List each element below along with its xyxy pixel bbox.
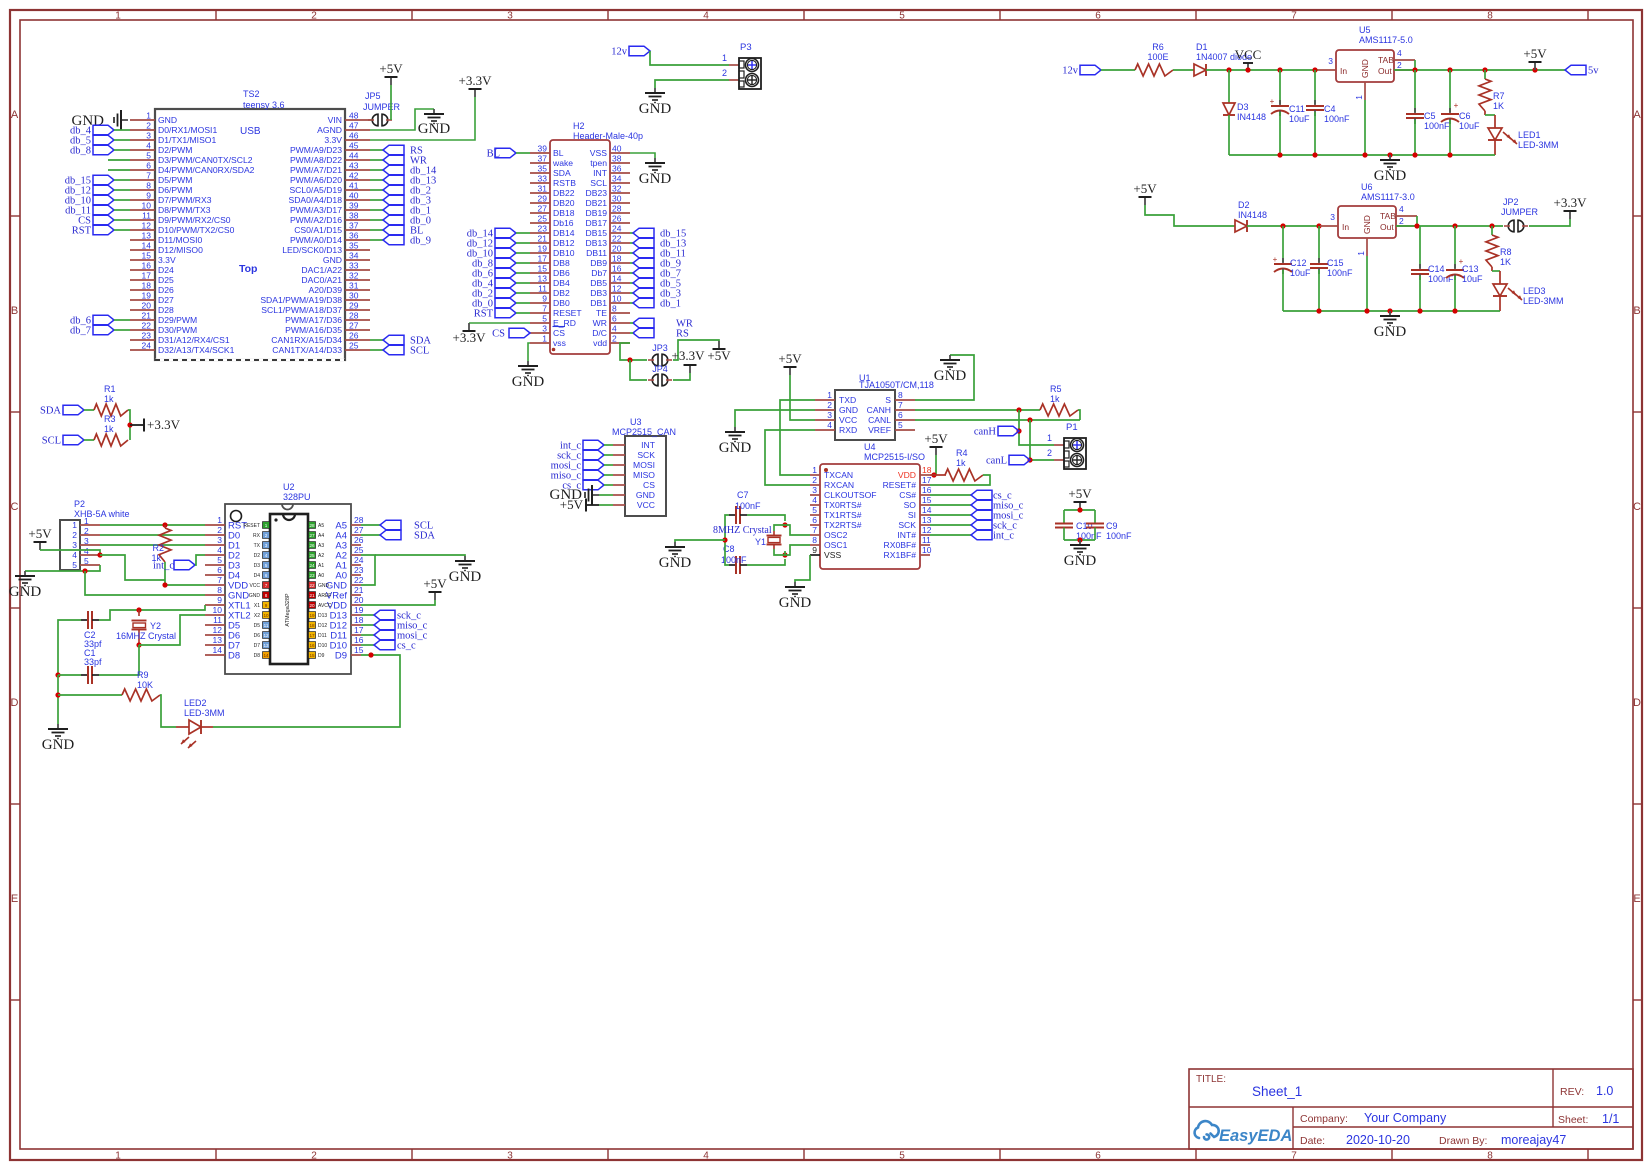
svg-text:ATMega328P: ATMega328P xyxy=(285,593,291,627)
junction dot C13 bottom xyxy=(1452,308,1457,313)
svg-text:R8: R8 xyxy=(1500,247,1512,257)
IC TS2 teensy 3.6 xyxy=(130,89,370,360)
svg-text:11: 11 xyxy=(264,623,269,628)
ground at H2 pin1 xyxy=(512,361,545,390)
net flag db_8 xyxy=(472,258,530,269)
svg-text:A5: A5 xyxy=(318,523,324,529)
svg-text:RS: RS xyxy=(676,329,689,340)
net flag db_2 xyxy=(370,185,431,196)
wire CANH rail xyxy=(915,409,1040,411)
svg-text:D24: D24 xyxy=(158,265,174,275)
junction dot U5 gnd xyxy=(1362,152,1367,157)
svg-text:14: 14 xyxy=(263,653,269,658)
net flag db_14 xyxy=(467,228,530,239)
svg-text:21: 21 xyxy=(354,585,364,595)
svg-text:R9: R9 xyxy=(137,670,149,680)
svg-text:1: 1 xyxy=(217,515,222,525)
svg-text:JUMPER: JUMPER xyxy=(363,102,401,112)
svg-text:GND: GND xyxy=(1362,215,1372,234)
svg-text:12: 12 xyxy=(213,625,223,635)
svg-text:100nF: 100nF xyxy=(735,501,761,511)
svg-text:1/1: 1/1 xyxy=(1602,1112,1619,1126)
svg-text:PWM/A6/D20: PWM/A6/D20 xyxy=(290,175,342,185)
svg-text:24: 24 xyxy=(612,224,622,234)
wire P2 pin1 to U2 RST xyxy=(100,524,205,526)
svg-text:vdd: vdd xyxy=(593,338,607,348)
svg-text:P3: P3 xyxy=(740,42,752,53)
junction dot Y1 bottom xyxy=(782,552,787,557)
wire H2 pin40 to GND xyxy=(630,153,655,158)
svg-text:13: 13 xyxy=(922,515,932,525)
svg-text:D10/PWM/TX2/CS0: D10/PWM/TX2/CS0 xyxy=(158,225,235,235)
svg-text:IN4148: IN4148 xyxy=(1237,112,1266,122)
svg-text:GND: GND xyxy=(1360,59,1370,78)
svg-text:19: 19 xyxy=(142,291,152,301)
wire canL drop to P1 pin2 xyxy=(1030,420,1054,460)
svg-text:36: 36 xyxy=(612,164,622,174)
wire P3 pin2 to GND xyxy=(655,80,729,88)
svg-text:In: In xyxy=(1340,66,1347,76)
svg-text:PWM/A16/D35: PWM/A16/D35 xyxy=(285,325,342,335)
svg-text:+5V: +5V xyxy=(28,526,52,541)
svg-text:4: 4 xyxy=(146,141,151,151)
svg-text:cs_c: cs_c xyxy=(397,641,416,652)
net flag RS xyxy=(630,328,689,339)
power +5V at P2 xyxy=(28,526,52,550)
svg-text:TITLE:: TITLE: xyxy=(1196,1074,1226,1085)
svg-text:34: 34 xyxy=(349,251,359,261)
svg-text:DB11: DB11 xyxy=(586,248,607,258)
svg-text:CAN1RX/A15/D34: CAN1RX/A15/D34 xyxy=(271,335,342,345)
svg-text:19: 19 xyxy=(309,613,315,618)
svg-text:23: 23 xyxy=(142,331,152,341)
svg-text:22: 22 xyxy=(612,234,622,244)
svg-text:26: 26 xyxy=(612,214,622,224)
power +5V at U1 xyxy=(778,351,802,375)
svg-text:teensy 3.6: teensy 3.6 xyxy=(243,100,285,110)
net flag db_12 xyxy=(467,238,530,249)
svg-text:U2: U2 xyxy=(283,482,295,492)
svg-text:36: 36 xyxy=(349,231,359,241)
svg-text:TAB: TAB xyxy=(1380,211,1396,221)
svg-text:S: S xyxy=(885,395,891,405)
ground at U4 VSS xyxy=(779,582,812,611)
svg-text:U4: U4 xyxy=(864,442,876,452)
svg-text:+3.3V: +3.3V xyxy=(1554,195,1588,210)
svg-text:27: 27 xyxy=(538,204,548,214)
wire C1 left to gnd node xyxy=(58,674,81,676)
wire C2 left down xyxy=(58,620,81,675)
svg-text:D12/MISO0: D12/MISO0 xyxy=(158,245,203,255)
wire D2 to U6 In xyxy=(1247,225,1320,227)
ground at TS2 pin 1 xyxy=(72,110,129,130)
crystal Y2 xyxy=(116,610,176,645)
svg-text:CS: CS xyxy=(492,329,505,340)
svg-text:P2: P2 xyxy=(74,499,85,509)
svg-text:db_1: db_1 xyxy=(660,299,681,310)
svg-text:+: + xyxy=(1459,257,1464,266)
svg-text:16MHZ Crystal: 16MHZ Crystal xyxy=(116,631,176,641)
svg-text:C9: C9 xyxy=(1106,521,1118,531)
net flag miso_c at U2 xyxy=(361,620,428,631)
net flag cs_c at U3 xyxy=(562,480,613,491)
power +5V at JP3 xyxy=(707,341,731,363)
svg-text:1.0: 1.0 xyxy=(1596,1084,1613,1098)
svg-text:2: 2 xyxy=(812,475,817,485)
junction dot U6 out xyxy=(1414,223,1419,228)
wire R2 bottom to VDD xyxy=(165,562,205,585)
net flag CS xyxy=(492,328,530,339)
net flag mosi_c at U3 xyxy=(551,460,613,471)
svg-text:Drawn By:: Drawn By: xyxy=(1439,1135,1487,1147)
junction dot C15 bottom xyxy=(1316,308,1321,313)
svg-text:1: 1 xyxy=(1354,95,1364,100)
svg-text:39: 39 xyxy=(349,201,359,211)
resistor R7 xyxy=(1479,70,1505,111)
power +5V at JP5 xyxy=(379,61,403,85)
net flag SCL xyxy=(42,435,84,446)
wire P2 pin3 to U2 D1 xyxy=(100,544,205,546)
svg-text:D30/PWM: D30/PWM xyxy=(158,325,197,335)
net flag int_c xyxy=(930,530,1014,541)
svg-text:SI: SI xyxy=(908,510,916,520)
svg-text:DB13: DB13 xyxy=(586,238,608,248)
net flag miso_c at U3 xyxy=(551,470,613,481)
svg-text:D26: D26 xyxy=(158,285,174,295)
svg-text:RST: RST xyxy=(72,226,92,237)
svg-text:A20/D39: A20/D39 xyxy=(309,285,343,295)
junction dot C11 top xyxy=(1277,67,1282,72)
junction dot R2 bottom xyxy=(162,582,167,587)
svg-text:MCP2515-I/SO: MCP2515-I/SO xyxy=(864,452,925,462)
svg-text:B: B xyxy=(11,305,18,317)
svg-text:18: 18 xyxy=(142,281,152,291)
svg-text:4: 4 xyxy=(1399,204,1404,214)
svg-text:100nF: 100nF xyxy=(1424,121,1450,131)
svg-text:VSS: VSS xyxy=(824,550,841,560)
svg-text:AMS1117-3.0: AMS1117-3.0 xyxy=(1361,192,1415,202)
svg-text:8: 8 xyxy=(146,181,151,191)
svg-text:DB8: DB8 xyxy=(553,258,570,268)
ground at U1 pin8 xyxy=(934,355,967,384)
svg-text:1: 1 xyxy=(146,111,151,121)
svg-text:VSS: VSS xyxy=(590,148,607,158)
svg-text:6: 6 xyxy=(146,161,151,171)
svg-text:2: 2 xyxy=(1397,60,1402,70)
junction dot R9 left xyxy=(55,692,60,697)
svg-text:D7: D7 xyxy=(254,643,261,649)
svg-text:SDA1/PWM/A19/D38: SDA1/PWM/A19/D38 xyxy=(260,295,342,305)
svg-text:1k: 1k xyxy=(956,458,966,468)
net flag db_1 xyxy=(630,298,681,309)
svg-text:PWM/A17/D36: PWM/A17/D36 xyxy=(285,315,342,325)
wire JP2 to +3.3V xyxy=(1529,219,1570,226)
net flag canH xyxy=(974,426,1019,437)
junction dot gnd2 sym xyxy=(1387,308,1392,313)
svg-text:DB20: DB20 xyxy=(553,198,575,208)
svg-text:DB5: DB5 xyxy=(590,278,607,288)
svg-text:GND: GND xyxy=(42,737,75,753)
svg-text:RX0BF#: RX0BF# xyxy=(884,540,917,550)
svg-text:4: 4 xyxy=(84,546,89,556)
svg-text:GND: GND xyxy=(449,569,482,585)
svg-text:4: 4 xyxy=(827,420,832,430)
net flag sck_c at U2 xyxy=(361,610,421,621)
net flag db_10 xyxy=(65,195,130,206)
svg-text:17: 17 xyxy=(538,254,548,264)
svg-text:+5V: +5V xyxy=(1133,181,1157,196)
svg-text:18: 18 xyxy=(354,615,364,625)
svg-text:Your Company: Your Company xyxy=(1364,1111,1447,1125)
svg-text:A3: A3 xyxy=(318,543,324,549)
wire U5 TAB to out rail xyxy=(1414,60,1416,70)
wire P2 pin2 to U2 D0 xyxy=(100,534,205,536)
svg-text:12v: 12v xyxy=(611,47,628,58)
svg-text:D8/PWM/TX3: D8/PWM/TX3 xyxy=(158,205,211,215)
svg-text:RX1BF#: RX1BF# xyxy=(884,550,917,560)
svg-text:E: E xyxy=(11,893,18,905)
svg-text:7: 7 xyxy=(812,525,817,535)
svg-text:1: 1 xyxy=(812,465,817,475)
svg-text:CAN1TX/A14/D33: CAN1TX/A14/D33 xyxy=(272,345,342,355)
IC U4 MCP2515-I/SO xyxy=(810,442,932,569)
net flag db_5 xyxy=(70,135,130,146)
svg-text:2: 2 xyxy=(1399,216,1404,226)
svg-text:SDA0/A4/D18: SDA0/A4/D18 xyxy=(288,195,342,205)
svg-text:28: 28 xyxy=(354,515,364,525)
svg-text:6: 6 xyxy=(265,573,268,578)
svg-text:+3.3V: +3.3V xyxy=(453,330,487,345)
svg-text:D3: D3 xyxy=(254,563,261,569)
svg-text:38: 38 xyxy=(612,154,622,164)
svg-text:7: 7 xyxy=(146,171,151,181)
LED LED1 xyxy=(1485,111,1559,155)
svg-text:TS2: TS2 xyxy=(243,89,260,99)
svg-text:db_7: db_7 xyxy=(70,326,91,337)
svg-text:21: 21 xyxy=(142,311,152,321)
svg-text:40: 40 xyxy=(612,144,622,154)
svg-text:BL: BL xyxy=(553,148,564,158)
svg-text:A4: A4 xyxy=(318,533,324,539)
svg-text:R1: R1 xyxy=(104,384,116,394)
wire +5V to P2 pin4 xyxy=(40,550,100,555)
capacitor C2 xyxy=(81,611,102,649)
svg-text:34: 34 xyxy=(612,174,622,184)
svg-text:14: 14 xyxy=(612,274,622,284)
svg-text:moreajay47: moreajay47 xyxy=(1501,1133,1566,1147)
svg-text:VIN: VIN xyxy=(328,115,342,125)
svg-text:TE: TE xyxy=(596,308,607,318)
junction dot C4 bottom xyxy=(1312,152,1317,157)
junction dot canH xyxy=(1016,407,1021,412)
wire JP5 to +5V xyxy=(390,85,392,120)
wire GND bus lower regulator xyxy=(1283,310,1500,312)
net flag miso_c xyxy=(930,500,1024,511)
svg-text:OSC1: OSC1 xyxy=(824,540,848,550)
svg-text:D/C: D/C xyxy=(592,328,607,338)
svg-text:INT: INT xyxy=(593,168,608,178)
svg-text:D1/TX1/MISO1: D1/TX1/MISO1 xyxy=(158,135,216,145)
power +5V output xyxy=(1523,46,1547,70)
svg-text:D6/PWM: D6/PWM xyxy=(158,185,192,195)
svg-text:10uF: 10uF xyxy=(1290,268,1311,278)
svg-text:C14: C14 xyxy=(1428,264,1445,274)
svg-text:D9: D9 xyxy=(335,651,347,662)
power +5V at U2 xyxy=(423,576,447,600)
svg-text:SCL0/A5/D19: SCL0/A5/D19 xyxy=(289,185,342,195)
net flag db_3 xyxy=(370,195,431,206)
svg-text:CS: CS xyxy=(643,480,655,490)
svg-text:42: 42 xyxy=(349,171,359,181)
wire U6 out rail xyxy=(1396,225,1503,227)
svg-text:CANL: CANL xyxy=(868,415,891,425)
junction dot R2 top xyxy=(162,522,167,527)
pin stub P3-1 xyxy=(722,53,739,65)
net flag sck_c at U3 xyxy=(557,450,613,461)
regulator U5 AMS1117-5.0 xyxy=(1318,25,1415,100)
capacitor C8 xyxy=(721,544,747,574)
svg-text:15: 15 xyxy=(309,653,315,658)
svg-text:15: 15 xyxy=(538,264,548,274)
svg-text:13: 13 xyxy=(213,635,223,645)
wire Y1 top to OSC2 xyxy=(785,525,810,535)
junction dot VCC xyxy=(1245,67,1250,72)
svg-text:MOSI: MOSI xyxy=(633,460,655,470)
svg-text:33: 33 xyxy=(538,174,548,184)
svg-text:16: 16 xyxy=(354,635,364,645)
capacitor C7 xyxy=(729,490,761,524)
net flag 12v xyxy=(611,46,650,57)
net flag db_3 xyxy=(630,288,681,299)
ground at P2 xyxy=(9,571,42,600)
junction dot xtal gnd xyxy=(722,537,727,542)
net flag mosi_c xyxy=(930,510,1024,521)
svg-text:9: 9 xyxy=(542,294,547,304)
svg-text:Company:: Company: xyxy=(1300,1113,1348,1125)
svg-text:23: 23 xyxy=(309,573,315,578)
net flag SCL xyxy=(370,345,429,356)
svg-text:CLKOUTSOF: CLKOUTSOF xyxy=(824,490,877,500)
svg-text:wake: wake xyxy=(552,158,573,168)
junction dot Y2 top xyxy=(136,607,141,612)
svg-text:25: 25 xyxy=(349,341,359,351)
resistor R5 xyxy=(1040,384,1078,416)
connector H2 Header-Male-40p xyxy=(530,121,643,354)
capacitor C5 xyxy=(1406,70,1450,155)
jumper JP5 xyxy=(363,91,401,126)
svg-text:28: 28 xyxy=(349,311,359,321)
svg-text:D3: D3 xyxy=(1237,102,1249,112)
svg-text:SCL: SCL xyxy=(410,346,429,357)
svg-text:WR: WR xyxy=(593,318,607,328)
svg-text:SCK: SCK xyxy=(898,520,916,530)
svg-text:JP4: JP4 xyxy=(652,364,668,374)
svg-text:+5V: +5V xyxy=(560,497,584,512)
svg-text:1K: 1K xyxy=(1493,101,1504,111)
svg-text:35: 35 xyxy=(538,164,548,174)
wire SDA to R1 xyxy=(84,409,94,411)
net flag db_11 xyxy=(630,248,686,259)
junction dot Y2 bottom xyxy=(136,642,141,647)
svg-text:PWM/A8/D22: PWM/A8/D22 xyxy=(290,155,342,165)
svg-text:10: 10 xyxy=(142,201,152,211)
svg-text:3: 3 xyxy=(84,536,89,546)
wire node to JP4 xyxy=(630,360,647,380)
wire U2 A2+GND to GND xyxy=(361,555,375,585)
svg-text:VCC: VCC xyxy=(839,415,857,425)
svg-text:DB9: DB9 xyxy=(590,258,607,268)
svg-text:1: 1 xyxy=(827,390,832,400)
ground at U5 rail xyxy=(1374,155,1407,184)
svg-text:3: 3 xyxy=(1328,56,1333,66)
junction dot +5V out xyxy=(1532,67,1537,72)
svg-text:MISO: MISO xyxy=(633,470,655,480)
svg-text:TX1RTS#: TX1RTS# xyxy=(824,510,862,520)
svg-text:TAB: TAB xyxy=(1378,55,1394,65)
svg-text:2: 2 xyxy=(1047,448,1052,458)
svg-text:11: 11 xyxy=(142,211,151,221)
capacitor C1 xyxy=(81,648,102,684)
svg-text:3: 3 xyxy=(542,324,547,334)
svg-text:12: 12 xyxy=(142,221,152,231)
svg-text:8: 8 xyxy=(812,535,817,545)
svg-text:Sheet_1: Sheet_1 xyxy=(1252,1084,1302,1099)
wire U6 GND pin down xyxy=(1366,256,1368,311)
net flag db_8 xyxy=(70,145,130,156)
svg-text:C4: C4 xyxy=(1324,104,1336,114)
wire +5V to D2 xyxy=(1145,205,1235,226)
svg-text:20: 20 xyxy=(142,301,152,311)
svg-text:+5V: +5V xyxy=(1523,46,1547,61)
svg-text:DB15: DB15 xyxy=(586,228,608,238)
net flag BL xyxy=(370,225,423,236)
wire TS2 pin 6 xyxy=(108,169,130,171)
resistor R4 xyxy=(930,448,983,481)
svg-text:+5V: +5V xyxy=(423,576,447,591)
wire TS2 pin 5 xyxy=(108,159,130,161)
svg-text:PWM/A0/D14: PWM/A0/D14 xyxy=(290,235,342,245)
svg-text:27: 27 xyxy=(349,321,359,331)
svg-text:JP2: JP2 xyxy=(1503,197,1519,207)
svg-text:AVCC: AVCC xyxy=(318,603,332,609)
svg-text:27: 27 xyxy=(354,525,364,535)
svg-text:GND: GND xyxy=(323,255,342,265)
crystal Y1 xyxy=(713,525,785,555)
svg-text:29: 29 xyxy=(349,301,359,311)
svg-text:+5V: +5V xyxy=(924,431,948,446)
svg-text:DB2: DB2 xyxy=(553,288,570,298)
svg-text:+5V: +5V xyxy=(379,61,403,76)
svg-text:D2/PWM: D2/PWM xyxy=(158,145,192,155)
svg-text:db_8: db_8 xyxy=(70,146,91,157)
svg-text:2: 2 xyxy=(311,11,317,22)
net flag BL xyxy=(487,148,530,159)
svg-text:GND: GND xyxy=(1374,168,1407,184)
svg-text:C5: C5 xyxy=(1424,111,1436,121)
svg-text:13: 13 xyxy=(538,274,548,284)
svg-text:D13: D13 xyxy=(318,613,327,619)
net flag mosi_c at U2 xyxy=(361,630,428,641)
wire xtal gnd xyxy=(675,540,725,542)
net flag db_10 xyxy=(467,248,530,259)
EasyEDA logo xyxy=(1195,1121,1293,1145)
svg-text:Db7: Db7 xyxy=(591,268,607,278)
svg-text:5: 5 xyxy=(898,420,903,430)
net flag db_4 xyxy=(70,125,130,136)
junction dot D9 xyxy=(368,652,373,657)
wire U1 S to GND xyxy=(915,355,974,400)
svg-text:31: 31 xyxy=(349,281,359,291)
